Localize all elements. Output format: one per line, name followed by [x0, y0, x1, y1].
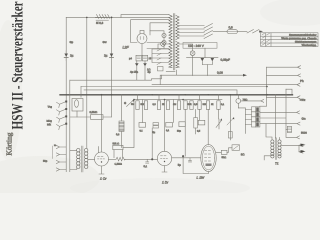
output tube V3: [201, 145, 216, 172]
heater link bar: [166, 70, 175, 72]
transformer Tr1 secondary upper: [176, 16, 179, 40]
wire grid return vertical: [86, 17, 88, 148]
svg-text:5µ: 5µ: [178, 163, 181, 167]
svg-text:110 - 240 V: 110 - 240 V: [188, 44, 205, 48]
capacitor C10: [179, 122, 185, 127]
transformer Tr1 core: [173, 14, 174, 71]
capacitor C8 double: [153, 123, 159, 128]
svg-text:+Wz: +Wz: [299, 98, 305, 102]
wire bus row line: [134, 99, 222, 101]
resistor R6: [184, 101, 187, 110]
transformer Tr1 secondary lower: [176, 42, 179, 68]
svg-text:MDg: MDg: [46, 120, 52, 123]
output transformer Tr2 core: [275, 138, 276, 160]
wire V3 anode: [216, 151, 221, 153]
svg-text:3µ: 3µ: [147, 70, 150, 74]
trimmer arrow on pot line: [227, 117, 234, 125]
jack socket: [236, 99, 241, 108]
svg-text:50k Ω: 50k Ω: [112, 142, 119, 145]
trimmer P2 box: [232, 145, 240, 151]
Tr3 leads: [70, 151, 95, 170]
lamp La1: [162, 33, 166, 37]
relay jack box: [72, 99, 83, 118]
svg-text:m: m: [54, 144, 56, 147]
svg-text:TAg: TAg: [48, 106, 53, 109]
wire connector feed: [245, 108, 251, 134]
resistor R9: [206, 101, 209, 110]
svg-text:0,1: 0,1: [143, 164, 147, 168]
svg-text:L2F: L2F: [122, 45, 129, 49]
resistor R10: [217, 101, 220, 110]
svg-text:HSW II - Steuerverstärker: HSW II - Steuerverstärker: [9, 1, 26, 129]
resistor R2: [144, 101, 147, 110]
wire J2 loop: [183, 156, 208, 173]
capacitor at J2: [188, 158, 191, 162]
svg-text:8Ω: 8Ω: [241, 152, 245, 156]
svg-text:0,8: 0,8: [228, 25, 233, 29]
capacitor C7: [139, 123, 146, 128]
svg-text:5000: 5000: [301, 131, 307, 135]
chassis arrowhead: [243, 74, 247, 77]
resistor box 0,5M: [70, 115, 112, 120]
resistor R7: [190, 101, 193, 110]
fuse Si: [96, 15, 110, 21]
svg-text:Gp: Gp: [69, 40, 73, 44]
ground bus heavy: [60, 94, 293, 96]
wire block row D: [260, 122, 300, 139]
wire to mains switch: [238, 31, 248, 33]
svg-text:Gn: Gn: [301, 117, 305, 121]
wire drops to bottom row: [123, 100, 219, 160]
lamp La4: [158, 42, 169, 49]
svg-text:2µ: 2µ: [70, 53, 74, 57]
wire rail2 corner: [80, 87, 82, 98]
legend table: [261, 33, 319, 47]
capacitor C4: [211, 58, 215, 65]
svg-text:Ph: Ph: [300, 79, 304, 83]
resistor anode box: [221, 150, 227, 154]
hatched resistor vertical: [119, 95, 124, 148]
wire Tr2 sec top lead: [278, 137, 280, 139]
rectifier tube L2F: [137, 30, 147, 55]
electrolytic on pot line: [228, 132, 232, 139]
terminal G arrow: [127, 99, 135, 106]
svg-text:2µ: 2µ: [104, 53, 108, 57]
mains capacitor block: [136, 55, 148, 61]
wire mid rail c: [84, 90, 237, 95]
wire +Wz line: [267, 96, 301, 99]
node dots bus: [86, 17, 268, 101]
trimmer P1: [216, 118, 222, 129]
svg-text:Gleichspannungen: Gleichspannungen: [295, 40, 317, 44]
switch end dot: [259, 31, 263, 33]
wire V2 to J2: [172, 157, 201, 159]
wire mid rail a: [152, 83, 300, 86]
heater taps left: [152, 49, 169, 63]
resistor R3: [157, 101, 160, 110]
selector switch slashes: [204, 24, 213, 39]
coupling box mid: [194, 109, 198, 134]
wire to fuse F2: [213, 31, 227, 33]
svg-text:Wechselspg.: Wechselspg.: [302, 43, 317, 47]
svg-text:50µ: 50µ: [177, 131, 182, 133]
wire lower right rail: [275, 95, 277, 138]
heater arrows: [157, 49, 161, 65]
output transformer Tr2 secondary: [278, 140, 281, 158]
svg-text:0,05µF: 0,05µF: [220, 58, 230, 62]
output transformer Tr2 primary: [271, 140, 274, 158]
node J1: [151, 158, 153, 160]
wire block row C: [260, 89, 300, 139]
wire rail1 left: [70, 79, 152, 81]
wire cap branch vertical: [111, 17, 113, 117]
svg-text:Gw: Gw: [102, 40, 106, 44]
wire top rail: [66, 16, 169, 18]
wire lamp line: [187, 57, 219, 59]
svg-text:Si 0,3: Si 0,3: [96, 21, 104, 25]
wire block row B Gn: [260, 111, 300, 114]
wire terminal Ph2: [267, 74, 301, 77]
resistor 50k box: [113, 145, 123, 157]
wire left bus vertical: [65, 17, 67, 171]
resistor R4: [166, 101, 169, 110]
tube V1 second stub: [97, 147, 99, 153]
pilot lamp La3: [179, 44, 195, 76]
connector block grid: [252, 107, 260, 127]
wire lamp column: [147, 31, 169, 49]
capacitor C3: [201, 58, 205, 65]
capacitor C11: [198, 120, 205, 125]
selector taps: [179, 26, 204, 37]
wire rail1 corner: [69, 80, 71, 172]
tube V2: [157, 151, 171, 172]
fuse F2: [227, 30, 238, 34]
wire block row A up: [260, 105, 267, 107]
capacitor at J1: [146, 159, 149, 163]
svg-text:0,06: 0,06: [217, 71, 223, 75]
cap labels: [139, 130, 200, 134]
input bracket: [52, 146, 54, 159]
svg-text:L 1W: L 1W: [196, 176, 205, 180]
input transformer Tr3 secondary: [85, 149, 88, 169]
legend text rows: [281, 33, 317, 47]
resistor zigzag: [116, 157, 125, 161]
wire rail 3: [131, 20, 169, 43]
svg-text:1,5MΩ: 1,5MΩ: [114, 163, 122, 166]
input transformer Tr3 core: [82, 146, 83, 172]
wire caps join: [202, 65, 212, 76]
wire jack row: [238, 100, 263, 108]
wire right terminal column: [266, 67, 268, 106]
wire V1 to J1: [125, 158, 157, 160]
wire rail 4: [150, 23, 169, 35]
speaker terminal 1: [299, 144, 306, 147]
svg-text:Körting: Körting: [5, 132, 14, 155]
capacitor C2: [110, 54, 114, 58]
switch labels: [46, 106, 52, 127]
capacitor C6: [143, 61, 147, 80]
selector voltage box: [183, 43, 217, 49]
capacitor C1: [64, 51, 68, 61]
wire box to lamp line: [204, 48, 206, 57]
capacitor chassis small: [286, 126, 292, 132]
svg-text:4µ 15µ: 4µ 15µ: [130, 70, 139, 74]
mains switch: [247, 30, 259, 34]
svg-text:1 Or: 1 Or: [100, 177, 107, 181]
input transformer Tr3 primary: [77, 149, 80, 169]
resistor R8: [198, 101, 201, 110]
wire bus link: [286, 89, 292, 95]
resistor labels: [131, 104, 225, 106]
hum pot box: [158, 67, 164, 71]
transformer Tr1 primary coil: [169, 15, 172, 68]
node J2: [182, 155, 184, 157]
svg-text:0,5MΩ: 0,5MΩ: [89, 110, 97, 114]
svg-text:G: G: [124, 101, 126, 105]
wire rail1 hook: [151, 75, 161, 80]
wire terminal Ph1: [267, 66, 301, 69]
capacitor C9: [166, 122, 173, 127]
capacitor C5: [135, 61, 139, 80]
speaker terminal 2: [299, 150, 306, 153]
resistor R5: [177, 101, 180, 110]
wire rail 2: [121, 15, 169, 18]
resistor R1: [136, 101, 139, 110]
wire bus stubs: [102, 95, 239, 152]
transformer Tr2 leads: [264, 145, 299, 160]
wire to trimmer: [227, 148, 232, 153]
input terminal forks: [56, 145, 66, 171]
svg-text:50µ: 50µ: [43, 160, 48, 163]
wire mid rail b: [81, 86, 267, 88]
switch column forks: [57, 102, 67, 130]
lamp La2: [162, 40, 166, 44]
wire chassis line: [160, 70, 243, 85]
svg-text:50Ω: 50Ω: [221, 156, 226, 159]
tube V1: [95, 152, 109, 174]
input labels: [43, 144, 56, 163]
svg-text:T1: T1: [275, 161, 279, 165]
grid wire V1: [109, 158, 117, 160]
svg-text:1 Dr: 1 Dr: [162, 180, 169, 184]
node dots left bus: [65, 101, 67, 125]
